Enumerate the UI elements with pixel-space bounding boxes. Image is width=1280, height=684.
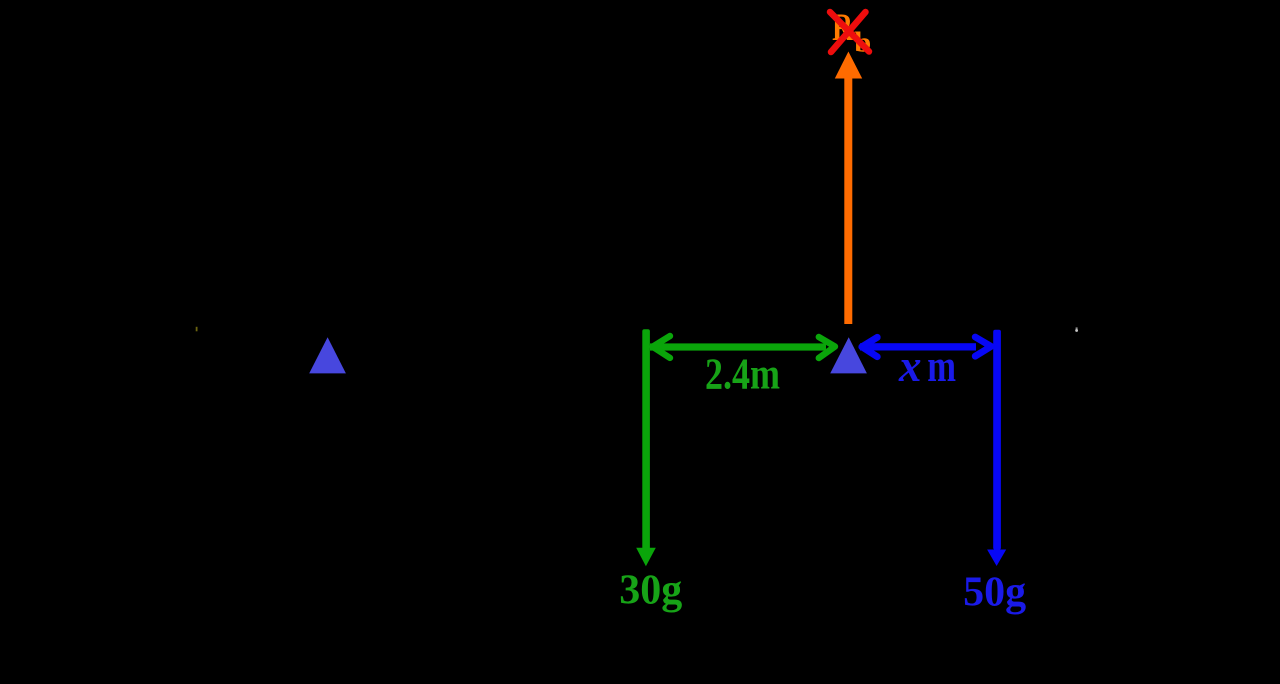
svg-text:x: x xyxy=(898,340,921,391)
svg-text:m: m xyxy=(927,340,956,391)
svg-text:30g: 30g xyxy=(619,568,682,614)
svg-text:50g: 50g xyxy=(963,570,1026,616)
svg-text:2.4m: 2.4m xyxy=(705,349,780,398)
